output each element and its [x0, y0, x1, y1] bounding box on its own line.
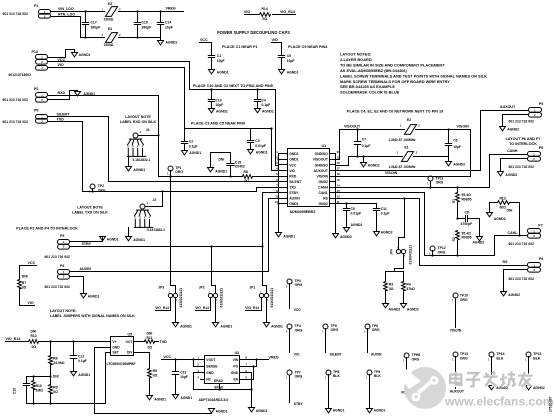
svg-text:0Ω: 0Ω — [153, 374, 158, 378]
node VIO stub for C9 — [272, 38, 282, 55]
svg-text:AGND1: AGND1 — [216, 409, 228, 413]
wire JP4 to resistors — [386, 255, 404, 272]
wire U5 SET — [106, 353, 111, 404]
svg-text:VOUT: VOUT — [206, 358, 215, 362]
test point TP12 — [429, 246, 446, 257]
svg-text:AGND1: AGND1 — [107, 238, 119, 242]
svg-text:PG: PG — [233, 364, 238, 368]
svg-text:AGND1: AGND1 — [83, 92, 95, 96]
wire GND2 pin11 row — [336, 202, 377, 204]
svg-text:0Ω: 0Ω — [148, 346, 153, 350]
jumper JP2 — [199, 245, 224, 307]
ground AGND1 at C9 — [279, 70, 299, 75]
svg-text:VREG: VREG — [166, 7, 176, 11]
svg-text:TO INTERLOCK: TO INTERLOCK — [509, 142, 537, 146]
ground AGND2 at C8 — [473, 237, 485, 245]
svg-text:GNDISO: GNDISO — [315, 152, 329, 156]
svg-text:CANH: CANH — [507, 149, 518, 153]
wire SENSE tie — [194, 360, 201, 367]
jumper JP3 — [158, 175, 183, 307]
resistor R2 — [452, 231, 472, 257]
svg-text:GND: GND — [231, 371, 239, 375]
svg-text:BLK: BLK — [333, 374, 340, 378]
svg-text:E1: E1 — [405, 145, 409, 149]
svg-text:VCC: VCC — [28, 261, 36, 265]
resistor R8 — [243, 170, 253, 183]
capacitor C18 — [134, 10, 151, 38]
svg-text:601 213 716 002: 601 213 716 002 — [509, 242, 534, 246]
svg-text:R0805: R0805 — [462, 198, 472, 202]
svg-text:LAYOUT NOTE: LAYOUT NOTE — [125, 115, 151, 119]
svg-text:AGND1: AGND1 — [217, 71, 229, 75]
svg-text:RXD: RXD — [58, 91, 66, 95]
capacitor C15 DNI — [211, 153, 245, 178]
svg-text:10µF: 10µF — [180, 375, 188, 379]
svg-text:LABEL SCREW TERMINALS AND TEST: LABEL SCREW TERMINALS AND TEST POINTS WI… — [340, 73, 487, 78]
svg-text:601 213 716 002: 601 213 716 002 — [509, 277, 534, 281]
test point TP10 — [452, 293, 468, 328]
ferrite bead E2 — [389, 118, 421, 142]
ground AGND2 at P5 — [500, 127, 520, 132]
resistor R6 — [49, 342, 65, 377]
svg-text:C12: C12 — [78, 354, 84, 358]
svg-text:0.1µF: 0.1µF — [381, 212, 390, 216]
svg-text:DNI: DNI — [22, 275, 28, 279]
wire J4 shield to ground — [128, 157, 130, 167]
test point TP5 — [322, 324, 338, 353]
ground AGND1 at C10 — [209, 109, 228, 114]
wire RXD row — [159, 176, 279, 178]
svg-text:601 213 716 002: 601 213 716 002 — [45, 255, 70, 259]
svg-text:BLK: BLK — [374, 374, 381, 378]
svg-text:AGND1: AGND1 — [166, 41, 178, 45]
node VIO_R14 at JP1 — [245, 298, 261, 311]
wire PG EN tie — [245, 360, 257, 380]
svg-text:TXD: TXD — [160, 340, 168, 344]
test point TP2 — [89, 184, 106, 193]
svg-text:DNI: DNI — [31, 330, 37, 334]
ground AGND1 at TP8 — [326, 409, 345, 413]
wire RTN rail — [119, 37, 161, 39]
connector P13 — [9, 50, 48, 77]
svg-text:C10: C10 — [216, 98, 222, 102]
svg-text:1.0kΩ AT 100MHz: 1.0kΩ AT 100MHz — [389, 165, 416, 169]
test point TP13 — [452, 352, 468, 389]
test point TP1 — [167, 166, 183, 178]
svg-text:EPAD: EPAD — [214, 379, 223, 383]
wire CANH net — [336, 149, 528, 188]
ground AGND2 at pin20 — [333, 234, 352, 240]
svg-text:14: 14 — [337, 183, 341, 187]
note label RXD — [120, 115, 157, 124]
svg-text:10µF: 10µF — [165, 26, 173, 30]
svg-text:601 213 716 002: 601 213 716 002 — [3, 12, 28, 16]
svg-text:P2: P2 — [34, 87, 38, 91]
svg-text:LTC6990CS6MPBF: LTC6990CS6MPBF — [107, 362, 136, 366]
wire VIN_LDO — [51, 7, 105, 11]
svg-text:GND: GND — [112, 345, 120, 349]
svg-text:PLACE C4, E1, E2 AND C6 NETWOR: PLACE C4, E1, E2 AND C6 NETWORK NEXT TO … — [347, 109, 443, 113]
svg-text:AGND2: AGND2 — [389, 308, 401, 312]
svg-text:J2: J2 — [153, 198, 157, 202]
test point TP15 — [525, 352, 541, 386]
svg-text:JP4: JP4 — [390, 249, 394, 255]
svg-text:VIO: VIO — [28, 301, 34, 305]
svg-text:AGND1: AGND1 — [133, 238, 145, 242]
svg-text:10µF: 10µF — [217, 59, 225, 63]
svg-text:R12: R12 — [31, 334, 37, 338]
note place C10 C2 — [193, 84, 273, 88]
svg-text:C11: C11 — [381, 207, 387, 211]
svg-text:601 213 716 002: 601 213 716 002 — [509, 165, 534, 169]
svg-text:R0805: R0805 — [462, 236, 472, 240]
svg-text:JP2: JP2 — [199, 285, 205, 289]
svg-text:0.1µF: 0.1µF — [78, 359, 87, 363]
svg-text:JP1: JP1 — [249, 285, 255, 289]
ground AGND1 at P4 — [81, 294, 100, 299]
svg-text:4700pF: 4700pF — [461, 222, 473, 226]
svg-text:AGND1: AGND1 — [256, 151, 268, 155]
svg-text:0.1µF: 0.1µF — [189, 144, 198, 148]
svg-text:VIO_R14: VIO_R14 — [155, 306, 169, 310]
wire GNDISO pin20 drop — [335, 154, 337, 234]
op-amp U5 LTC6990 oscillator — [107, 332, 136, 366]
wire RXD from P2 — [49, 91, 159, 95]
svg-text:0Ω: 0Ω — [22, 286, 27, 290]
ground AGND2 at TP14 — [489, 386, 509, 391]
wire AUXIN net — [70, 199, 279, 272]
svg-text:DNI: DNI — [219, 158, 225, 162]
svg-text:LAYOUT NOTE: LAYOUT NOTE — [77, 206, 103, 210]
svg-text:LAYOUT NOTE:: LAYOUT NOTE: — [50, 309, 77, 313]
wire GND1 bus — [277, 154, 279, 233]
svg-text:C0402: C0402 — [235, 165, 245, 169]
wire J2 shield to ground — [128, 228, 130, 237]
node SILENT at TP5 — [330, 353, 343, 357]
note interlock P6 P7 — [505, 137, 540, 146]
net VIO R14 link — [244, 10, 296, 14]
svg-text:ORG: ORG — [372, 328, 380, 332]
note interlock P3 P4 — [16, 227, 78, 231]
svg-text:AUXIN: AUXIN — [289, 196, 300, 200]
test point TP9 — [366, 370, 381, 409]
capacitor C13 — [172, 360, 188, 395]
connector P4 — [45, 264, 70, 289]
svg-text:PLACE C1 NEAR P1: PLACE C1 NEAR P1 — [222, 45, 258, 49]
test point TP14 — [488, 352, 504, 386]
svg-text:AGND1: AGND1 — [180, 324, 192, 328]
node VCC for U4 — [162, 355, 201, 360]
node VCC at TP3 — [294, 308, 302, 312]
svg-text:C17: C17 — [91, 21, 97, 25]
svg-text:U5: U5 — [128, 332, 133, 336]
wire E1 to C6 — [414, 156, 449, 158]
ferrite bead E3 — [102, 2, 122, 22]
jack J4 — [127, 128, 150, 162]
svg-text:VISOIN: VISOIN — [385, 171, 398, 175]
svg-text:VREG: VREG — [269, 355, 279, 359]
svg-text:AGND1: AGND1 — [189, 151, 201, 155]
svg-text:VISOIN: VISOIN — [457, 125, 470, 129]
svg-text:AGND1: AGND1 — [256, 409, 268, 413]
svg-text:TXD: TXD — [289, 185, 296, 189]
ground AGND1 at C12 — [71, 372, 91, 377]
test point TP3 — [286, 279, 303, 309]
svg-text:SENSE: SENSE — [206, 364, 218, 368]
svg-text:GND2: GND2 — [319, 202, 328, 206]
svg-text:SILENT: SILENT — [289, 180, 302, 184]
svg-text:1MΩ: 1MΩ — [36, 389, 44, 393]
resistor R11 DNI — [135, 332, 168, 350]
node VIO_R14 feed — [6, 337, 29, 342]
svg-text:C8: C8 — [465, 211, 469, 215]
wire P6 pin2 to ground — [501, 159, 528, 172]
svg-text:R8: R8 — [244, 170, 248, 174]
svg-text:STBY: STBY — [289, 191, 299, 195]
svg-text:2-LAYER BOARD: 2-LAYER BOARD — [340, 57, 372, 62]
svg-text:AGND1: AGND1 — [154, 397, 166, 401]
capacitor C16 — [13, 377, 51, 404]
svg-text:C4: C4 — [262, 98, 266, 102]
svg-text:R9: R9 — [53, 385, 57, 389]
wire AUXOUT net — [336, 105, 529, 171]
svg-text:AGND1: AGND1 — [180, 396, 192, 400]
node VIO_R14 at JP2 — [195, 298, 210, 311]
svg-text:R4: R4 — [406, 282, 410, 286]
svg-text:AGND2: AGND2 — [507, 127, 519, 131]
svg-text:DNI: DNI — [147, 332, 153, 336]
svg-text:DIV: DIV — [127, 351, 133, 355]
wire VIO_R14 to U5 — [39, 340, 111, 342]
svg-text:POWER SUPPLY DECOUPLING CAPS: POWER SUPPLY DECOUPLING CAPS — [217, 30, 290, 35]
wire VIO riser — [272, 129, 279, 171]
wire U5 DIV to R9b — [135, 353, 150, 369]
svg-text:AGND2: AGND2 — [494, 217, 506, 221]
svg-text:61300211121: 61300211121 — [179, 288, 183, 308]
wire GNDISO pin18 to E1 — [336, 157, 403, 166]
svg-text:AUXOUT: AUXOUT — [450, 390, 465, 394]
svg-text:10µF: 10µF — [216, 103, 224, 107]
svg-text:AGND1: AGND1 — [78, 373, 90, 377]
connector P8 — [509, 257, 544, 281]
svg-text:1500Ω: 1500Ω — [104, 18, 114, 22]
svg-text:AGND1: AGND1 — [88, 295, 100, 299]
svg-text:STBY: STBY — [82, 242, 92, 246]
svg-text:OUT: OUT — [125, 340, 132, 344]
svg-text:18: 18 — [337, 161, 341, 165]
svg-text:15: 15 — [337, 178, 341, 182]
ground AGND2 at R3 — [383, 304, 401, 312]
wire GND EPAD rail — [194, 373, 253, 408]
svg-text:E2: E2 — [407, 118, 411, 122]
wire RTN_LDO — [51, 12, 105, 37]
svg-text:1.0kΩ AT 100MHz: 1.0kΩ AT 100MHz — [389, 138, 416, 142]
svg-text:BLK: BLK — [496, 356, 503, 360]
wire P2 pin2 to ground — [49, 91, 78, 100]
resistor R9b divider — [148, 369, 158, 396]
svg-text:VIO: VIO — [272, 38, 278, 42]
svg-text:C3: C3 — [255, 139, 259, 143]
wire VISOIN rail — [416, 125, 471, 177]
svg-text:V+: V+ — [112, 340, 116, 344]
capacitor C6 — [445, 130, 461, 157]
svg-text:C2: C2 — [189, 140, 193, 144]
svg-text:VISOIN: VISOIN — [450, 329, 462, 333]
wire VCC from P13 — [49, 58, 190, 90]
ground AGND1 at C15 — [208, 168, 228, 174]
ground AGND2 at P6 — [498, 172, 518, 178]
ground AGND1 at P2 — [75, 91, 96, 96]
ground AGND1 at C4 — [255, 109, 274, 114]
svg-text:47kΩ: 47kΩ — [406, 287, 415, 291]
svg-text:AGND1: AGND1 — [220, 324, 232, 328]
svg-text:601213718002: 601213718002 — [9, 73, 32, 77]
svg-text:VIO: VIO — [244, 10, 250, 14]
svg-text:P6: P6 — [539, 146, 543, 150]
test point TP4 — [286, 324, 303, 353]
ferrite bead E1 — [389, 145, 418, 169]
svg-text:ORG: ORG — [295, 329, 303, 333]
svg-text:E3: E3 — [108, 2, 112, 6]
wire RS net — [336, 197, 528, 265]
svg-text:SEE BR-044155 AS EXAMPLE: SEE BR-044155 AS EXAMPLE — [340, 84, 395, 89]
capacitor C9 — [278, 54, 294, 69]
op-amp U3 ADP7104 regulator — [197, 351, 247, 402]
svg-text:AGND2: AGND2 — [368, 164, 380, 168]
note place C1 — [222, 45, 258, 49]
svg-text:R7: R7 — [22, 281, 26, 285]
svg-text:0Ω: 0Ω — [389, 287, 394, 291]
capacitor C7 — [354, 128, 370, 157]
svg-text:CANL: CANL — [508, 231, 519, 235]
svg-text:ORG: ORG — [175, 170, 183, 174]
ground AGND1 at U5 — [209, 409, 228, 414]
svg-text:AGND1: AGND1 — [271, 324, 283, 328]
svg-text:C13: C13 — [180, 370, 186, 374]
svg-text:VIO: VIO — [294, 353, 300, 357]
wire VISOOUT — [336, 125, 405, 160]
svg-text:AUXIN: AUXIN — [80, 267, 92, 271]
svg-text:0.1µF: 0.1µF — [362, 144, 371, 148]
capacitor C17 — [82, 10, 100, 38]
svg-text:ORG: ORG — [295, 283, 303, 287]
svg-text:STBY: STBY — [294, 402, 304, 406]
svg-text:ORG: ORG — [331, 328, 339, 332]
svg-text:60Ω: 60Ω — [500, 206, 507, 210]
resistor R9 — [49, 377, 59, 404]
svg-text:RTN_LDO: RTN_LDO — [58, 12, 75, 16]
svg-text:AGND2: AGND2 — [407, 308, 419, 312]
svg-text:ORG: ORG — [295, 375, 303, 379]
svg-text:AGND1: AGND1 — [79, 53, 91, 57]
note label jumpers — [50, 309, 135, 318]
svg-text:AGND2: AGND2 — [381, 231, 393, 235]
svg-text:P9: P9 — [34, 109, 38, 113]
svg-text:GND2: GND2 — [319, 180, 328, 184]
capacitor C10 — [208, 90, 223, 109]
svg-text:RS: RS — [503, 260, 509, 264]
svg-text:www.elecfans.com: www.elecfans.com — [444, 395, 554, 409]
ground AGND2 at C5 — [344, 223, 363, 232]
svg-text:AGND1: AGND1 — [287, 71, 299, 75]
node VREG at U3 VIN — [245, 355, 279, 360]
svg-text:AGND1: AGND1 — [374, 409, 386, 413]
svg-text:LAYOUT P6 AND P7: LAYOUT P6 AND P7 — [505, 137, 540, 141]
test point TP7 — [286, 370, 303, 403]
svg-text:12: 12 — [337, 194, 341, 198]
svg-text:TXD: TXD — [57, 117, 65, 121]
svg-text:R2: R2 — [452, 237, 456, 241]
svg-text:R10: R10 — [36, 384, 42, 388]
node AUXOUT at TP13 — [450, 390, 465, 394]
svg-text:CANL: CANL — [319, 191, 328, 195]
svg-text:U1: U1 — [322, 144, 327, 148]
wire divider bottom rail — [27, 402, 106, 404]
resistor R4 — [402, 272, 415, 304]
svg-text:PLACE P3 AND P4 TO INTERLOCK: PLACE P3 AND P4 TO INTERLOCK — [16, 227, 78, 231]
connector P6 — [509, 146, 544, 169]
svg-text:VIO_R14: VIO_R14 — [195, 306, 209, 310]
svg-text:601 213 716 002: 601 213 716 002 — [509, 120, 534, 124]
svg-text:16: 16 — [337, 172, 341, 176]
test point TP11 — [427, 176, 444, 189]
svg-text:VIO_R14: VIO_R14 — [280, 10, 295, 14]
wire CANL net — [336, 193, 528, 256]
svg-text:PLACE C9 NEAR PIN4: PLACE C9 NEAR PIN4 — [288, 45, 328, 49]
svg-text:390pF: 390pF — [91, 26, 101, 30]
wire P4 pin2 to ground — [70, 277, 84, 294]
svg-text:RXD: RXD — [289, 174, 297, 178]
svg-text:VIO: VIO — [58, 63, 64, 67]
note place C9 — [288, 45, 328, 49]
resistor R3 — [384, 272, 394, 304]
svg-text:P5: P5 — [539, 102, 543, 106]
connector P1 — [3, 4, 51, 19]
svg-text:ADP7104ARDZ-5.0: ADP7104ARDZ-5.0 — [199, 398, 229, 402]
svg-text:VISOOUT: VISOOUT — [313, 158, 329, 162]
svg-text:VIN_LDO: VIN_LDO — [58, 7, 74, 11]
capacitor C11 — [373, 204, 389, 232]
svg-text:TO BE SIMILAR IN SIZE AND COMP: TO BE SIMILAR IN SIZE AND COMPONENT PLAC… — [340, 62, 445, 67]
ferrite bead E4 — [102, 27, 122, 47]
connector P3 — [45, 234, 70, 259]
note power supply decoupling — [217, 30, 290, 35]
capacitor C4 — [254, 88, 270, 108]
node VIO at TP4 — [294, 353, 300, 357]
svg-text:PLACE C10 AND C2 NEXT TO PIN2: PLACE C10 AND C2 NEXT TO PIN2 AND PIN5 — [193, 84, 273, 88]
svg-text:AGND2: AGND2 — [340, 235, 352, 239]
svg-text:AGND1: AGND1 — [133, 168, 145, 172]
ground AGND2 at R13 — [487, 213, 506, 221]
connector P2 — [3, 87, 48, 102]
svg-text:AS EVAL-ADM3055EBZ (BR-044406): AS EVAL-ADM3055EBZ (BR-044406) — [340, 68, 407, 73]
ground AGND1 at C3 — [248, 150, 268, 155]
ground AGND2 at R4 — [401, 304, 419, 312]
svg-text:10µF: 10µF — [453, 145, 461, 149]
svg-text:AUXOUT: AUXOUT — [500, 105, 516, 109]
svg-text:BLK: BLK — [533, 356, 540, 360]
svg-text:R6: R6 — [53, 356, 57, 360]
wire cap rail VCC — [190, 88, 276, 90]
svg-text:5-1814832-1: 5-1814832-1 — [133, 158, 151, 162]
node VIO_R14 at JP3 — [155, 298, 170, 311]
svg-text:VCC: VCC — [200, 38, 208, 42]
svg-text:AUXIN: AUXIN — [371, 353, 382, 357]
svg-text:AGND1: AGND1 — [216, 110, 228, 114]
svg-text:RS: RS — [323, 196, 328, 200]
jumper JP4 — [390, 199, 413, 265]
svg-text:J4: J4 — [146, 128, 150, 132]
